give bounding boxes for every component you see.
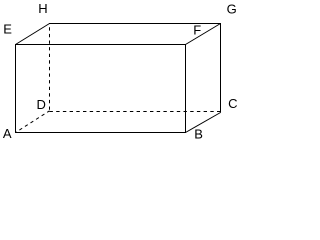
- wire hidden edge AD (bottom left depth diagonal, dashed): [16, 111, 50, 133]
- wire edge FG (top right depth diagonal): [186, 24, 221, 45]
- svg-text:F: F: [193, 23, 201, 38]
- wire edge HG (back top): [49, 23, 221, 25]
- svg-text:H: H: [38, 1, 47, 16]
- wire edge BF (front right vertical): [185, 44, 187, 133]
- wire edge EF (front top): [15, 44, 186, 46]
- svg-text:E: E: [3, 22, 12, 37]
- wire edge EH (top left depth diagonal): [16, 24, 50, 45]
- svg-text:D: D: [37, 97, 46, 112]
- svg-text:B: B: [194, 127, 203, 142]
- wire edge EA (front left vertical): [15, 45, 17, 134]
- wire hidden edge DC (back bottom, dashed): [50, 111, 221, 113]
- svg-text:G: G: [227, 1, 237, 16]
- wire hidden edge HD (back left vertical, dashed): [49, 24, 51, 111]
- wire edge AB (front bottom): [15, 132, 186, 134]
- svg-text:A: A: [3, 126, 12, 141]
- wire edge BC (bottom right depth diagonal): [186, 113, 221, 133]
- svg-text:C: C: [228, 96, 237, 111]
- wire edge GC (back right vertical): [220, 23, 222, 113]
